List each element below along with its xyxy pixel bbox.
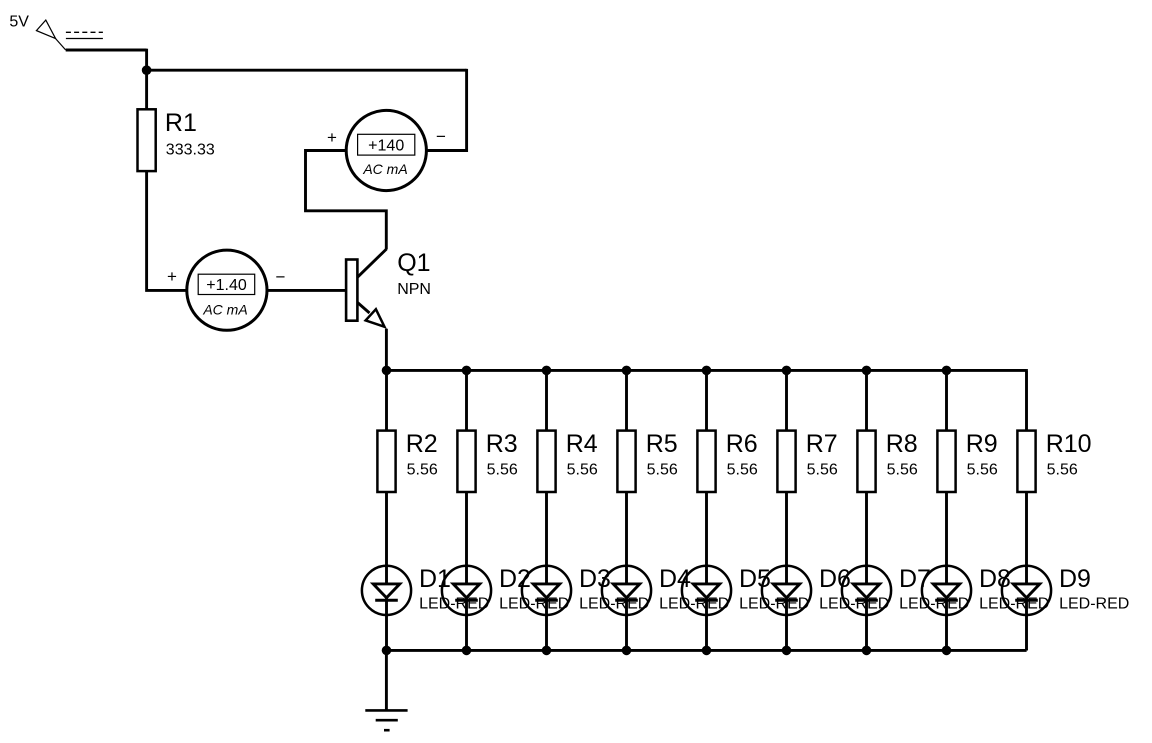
ammeter U2 display box — [198, 274, 255, 294]
node junction bottom column 9 — [1025, 649, 1028, 650]
top bus wire — [386, 369, 1026, 372]
resistor R4 — [537, 431, 555, 492]
svg-text:D5: D5 — [739, 565, 771, 593]
wire top bus to R5 — [625, 370, 628, 430]
wire R1 bottom to ammeter U2 plus — [147, 171, 187, 290]
resistor R1 — [138, 109, 156, 171]
svg-text:R6: R6 — [726, 430, 758, 458]
wire U2 minus to base — [268, 289, 346, 292]
node junction bottom column 4 — [622, 646, 632, 656]
node junction top column 4 — [622, 366, 632, 376]
svg-text:D7: D7 — [899, 565, 931, 593]
LED D7 — [842, 566, 891, 651]
svg-text:D8: D8 — [979, 565, 1011, 593]
svg-text:LED-RED: LED-RED — [739, 596, 809, 613]
node junction bottom column 6 — [782, 646, 792, 656]
svg-text:5.56: 5.56 — [967, 461, 998, 478]
svg-text:LED-RED: LED-RED — [659, 596, 729, 613]
node junction bottom column 5 — [702, 646, 712, 656]
resistor R2 — [377, 431, 395, 492]
svg-text:AC mA: AC mA — [362, 161, 407, 177]
svg-text:5.56: 5.56 — [1047, 461, 1078, 478]
node junction top column 5 — [702, 366, 712, 376]
node junction bottom column 3 — [542, 646, 552, 656]
LED D4 — [602, 566, 651, 651]
svg-text:D4: D4 — [659, 565, 691, 593]
svg-text:R3: R3 — [486, 430, 518, 458]
svg-text:D3: D3 — [579, 565, 611, 593]
wire top bus to R8 — [865, 370, 868, 430]
wire R7 to D6 — [785, 492, 788, 566]
power terminal 5V — [36, 20, 65, 50]
wire R6 to D5 — [705, 492, 708, 566]
node A junction — [142, 65, 152, 75]
transistor Q1 base bar — [346, 260, 357, 321]
svg-text:LED-RED: LED-RED — [819, 596, 889, 613]
wire R5 to D4 — [625, 492, 628, 566]
svg-text:LED-RED: LED-RED — [419, 596, 489, 613]
node junction bottom column 1 — [382, 646, 392, 656]
wire emitter to top bus — [385, 329, 388, 371]
node junction top column 6 — [782, 366, 792, 376]
wire top bus to R4 — [545, 370, 548, 430]
ground wire — [385, 650, 388, 710]
LED D1 — [362, 566, 411, 651]
wire 5V to corner — [66, 49, 147, 52]
LED D5 — [682, 566, 731, 651]
node junction top column 9 — [1025, 369, 1028, 370]
resistor R3 — [457, 431, 475, 492]
svg-text:5.56: 5.56 — [407, 461, 438, 478]
svg-text:R9: R9 — [966, 430, 998, 458]
wire R3 to D2 — [465, 492, 468, 566]
svg-text:D9: D9 — [1059, 565, 1091, 593]
ground — [365, 710, 407, 730]
wire top bus to R9 — [945, 370, 948, 430]
svg-text:+: + — [167, 267, 177, 286]
node junction top column 7 — [862, 366, 872, 376]
node junction top column 2 — [462, 366, 472, 376]
resistor R10 — [1017, 431, 1035, 492]
svg-text:5.56: 5.56 — [487, 461, 518, 478]
svg-text:5.56: 5.56 — [567, 461, 598, 478]
wire top bus to R3 — [465, 370, 468, 430]
svg-text:AC mA: AC mA — [202, 302, 247, 318]
LED D9 — [1002, 566, 1051, 651]
ammeter U1 display box — [358, 134, 415, 155]
svg-text:R8: R8 — [886, 430, 918, 458]
transistor Q1 collector diagonal — [358, 249, 387, 277]
bottom bus wire — [386, 649, 1026, 652]
node junction bottom column 8 — [942, 646, 952, 656]
svg-text:R4: R4 — [566, 430, 598, 458]
ammeter U2 body — [187, 250, 267, 330]
wire R8 to D7 — [865, 492, 868, 566]
wire top bus to R6 — [705, 370, 708, 430]
svg-text:NPN: NPN — [397, 281, 431, 298]
resistor R7 — [777, 431, 795, 492]
svg-text:R1: R1 — [165, 109, 197, 137]
LED D2 — [442, 566, 491, 651]
LED D3 — [522, 566, 571, 651]
svg-text:−: − — [276, 268, 286, 287]
wire right corner down to ammeter U1 minus — [427, 69, 466, 151]
svg-text:R10: R10 — [1046, 430, 1092, 458]
resistor R8 — [857, 431, 875, 492]
svg-text:5.56: 5.56 — [887, 461, 918, 478]
ammeter U1 body — [346, 110, 426, 190]
svg-text:−: − — [436, 127, 446, 146]
resistor R9 — [937, 431, 955, 492]
wire R9 to D8 — [945, 492, 948, 566]
svg-text:+1.40: +1.40 — [206, 277, 247, 294]
svg-text:R7: R7 — [806, 430, 838, 458]
wire top bus to R7 — [785, 370, 788, 430]
svg-text:D6: D6 — [819, 565, 851, 593]
wire top bus to R2 — [385, 370, 388, 430]
node junction bottom column 7 — [862, 646, 872, 656]
wire junction to R1 top — [145, 70, 148, 109]
node junction top column 1 — [382, 366, 392, 376]
wire R10 to D9 — [1025, 492, 1028, 566]
wire top rail junction to right corner — [147, 69, 467, 72]
svg-text:+140: +140 — [368, 137, 404, 154]
svg-text:Q1: Q1 — [397, 249, 430, 277]
svg-text:LED-RED: LED-RED — [979, 596, 1049, 613]
svg-text:+: + — [327, 128, 337, 147]
svg-text:LED-RED: LED-RED — [499, 596, 569, 613]
svg-text:5.56: 5.56 — [647, 461, 678, 478]
wire R4 to D3 — [545, 492, 548, 566]
svg-text:LED-RED: LED-RED — [1059, 596, 1129, 613]
node junction top column 3 — [542, 366, 552, 376]
LED D6 — [762, 566, 811, 651]
resistor R6 — [697, 431, 715, 492]
wire U1 plus to collector path — [306, 151, 387, 250]
svg-text:333.33: 333.33 — [166, 142, 215, 159]
transistor Q1 emitter diagonal — [358, 303, 370, 314]
svg-text:D2: D2 — [499, 565, 531, 593]
wire R2 to D1 — [385, 492, 388, 566]
node junction bottom column 2 — [462, 646, 472, 656]
svg-text:D1: D1 — [419, 565, 451, 593]
svg-text:R5: R5 — [646, 430, 678, 458]
svg-text:LED-RED: LED-RED — [899, 596, 969, 613]
svg-text:R2: R2 — [406, 430, 438, 458]
svg-text:LED-RED: LED-RED — [579, 596, 649, 613]
svg-text:5V: 5V — [9, 14, 29, 31]
svg-text:5.56: 5.56 — [727, 461, 758, 478]
svg-text:5.56: 5.56 — [807, 461, 838, 478]
resistor R5 — [617, 431, 635, 492]
wire corner down to junction — [145, 49, 148, 70]
wire top bus to R10 — [1025, 370, 1028, 430]
LED D8 — [922, 566, 971, 651]
transistor Q1 emitter arrowhead — [366, 309, 385, 327]
node junction top column 8 — [942, 366, 952, 376]
DC symbol — [66, 32, 103, 38]
